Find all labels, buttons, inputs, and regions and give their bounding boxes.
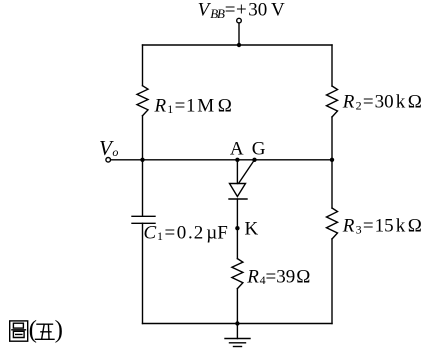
wire R4 to bottom rail	[236, 289, 238, 324]
svg-text:): )	[55, 317, 63, 344]
wire right branch R2 to R3	[331, 117, 333, 208]
svg-text:µF: µF	[206, 222, 228, 243]
svg-text:=: =	[165, 222, 176, 243]
SCR cathode bar	[229, 198, 247, 200]
label R1 value	[154, 95, 232, 116]
svg-text:15: 15	[375, 216, 394, 237]
junction ground node	[235, 321, 239, 325]
svg-text:R: R	[342, 216, 355, 237]
SCR gate lead	[239, 160, 255, 183]
terminal Vo	[106, 158, 111, 163]
svg-text:Ω: Ω	[408, 216, 422, 237]
capacitor C1	[132, 216, 155, 223]
svg-text:Ω: Ω	[296, 266, 310, 287]
svg-text:k: k	[396, 92, 406, 113]
junction A anode node	[235, 158, 239, 162]
svg-text:2: 2	[356, 98, 362, 112]
label R4 value	[246, 266, 310, 287]
svg-text:BB: BB	[210, 6, 225, 21]
svg-text:2: 2	[194, 222, 204, 243]
svg-text:1: 1	[157, 229, 163, 243]
svg-text:+: +	[236, 0, 247, 21]
wire VBB terminal to top rail	[238, 23, 240, 45]
resistor R2	[327, 86, 338, 117]
svg-text:=: =	[363, 92, 374, 113]
svg-text:Ω: Ω	[408, 92, 422, 113]
svg-text:V: V	[271, 0, 285, 21]
svg-text:C: C	[144, 222, 157, 243]
terminal VBB	[237, 18, 242, 23]
svg-text:=: =	[363, 216, 374, 237]
svg-text:R: R	[342, 92, 355, 113]
label Vo	[99, 136, 118, 160]
label VBB supply value	[198, 0, 285, 21]
wire right branch lower	[331, 239, 333, 324]
svg-text:K: K	[245, 219, 259, 240]
svg-text:30: 30	[248, 0, 267, 21]
junction Vo at left branch	[140, 158, 144, 162]
svg-text:G: G	[252, 139, 266, 160]
svg-text:=: =	[225, 0, 236, 21]
svg-text:=: =	[175, 95, 186, 116]
label figure caption 圖(五)	[10, 317, 63, 344]
svg-text:=: =	[266, 266, 277, 287]
resistor R3	[327, 208, 338, 239]
wire cathode to R4	[236, 199, 238, 259]
svg-text:R: R	[246, 266, 259, 287]
svg-text:A: A	[230, 139, 244, 160]
svg-text:1: 1	[167, 102, 173, 116]
svg-text:30: 30	[375, 92, 394, 113]
junction G gate node	[252, 158, 256, 162]
svg-text:k: k	[396, 216, 406, 237]
svg-text:R: R	[154, 95, 167, 116]
resistor R1	[137, 86, 148, 116]
SCR body triangle	[230, 184, 246, 197]
svg-text:o: o	[112, 145, 118, 159]
svg-text:Ω: Ω	[218, 95, 232, 116]
label C1 value	[144, 222, 228, 243]
wire top rail	[143, 44, 333, 46]
wire anode to SCR	[236, 160, 238, 184]
junction top rail at VBB	[237, 43, 241, 47]
svg-text:39: 39	[276, 266, 295, 287]
node K cathode	[235, 226, 239, 230]
wire left branch lower	[142, 223, 144, 323]
svg-text:3: 3	[356, 223, 362, 237]
svg-text:.: .	[188, 222, 193, 243]
resistor R4	[232, 259, 243, 289]
svg-text:0: 0	[177, 222, 187, 243]
wire left branch upper	[142, 45, 144, 86]
label R3 value	[342, 216, 422, 237]
wire left branch R1 to C1	[142, 116, 144, 217]
label R2 value	[342, 92, 422, 113]
svg-text:1: 1	[186, 95, 196, 116]
wire right branch upper	[331, 45, 333, 86]
wire Vo rail	[111, 159, 332, 161]
svg-text:M: M	[197, 95, 214, 116]
junction mid rail at right branch	[330, 158, 334, 162]
wire bottom rail	[143, 323, 333, 325]
ground	[225, 324, 250, 347]
